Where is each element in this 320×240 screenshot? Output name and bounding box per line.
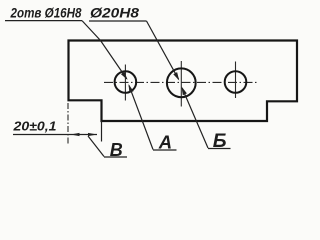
vertical center line hole B — [180, 61, 182, 107]
hole 1 (O16H8, labelled A) — [115, 71, 137, 93]
svg-text:А: А — [158, 132, 172, 153]
horizontal center line through holes — [104, 81, 258, 83]
dimension line — [13, 134, 97, 136]
callout underline 1 — [5, 20, 82, 22]
svg-text:В: В — [110, 140, 123, 160]
callout underline 2 — [89, 20, 147, 22]
leader from O16 callout to hole 1 — [82, 21, 127, 79]
hole 3 (O16H8) — [225, 71, 247, 93]
svg-text:2отв Ø16Н8: 2отв Ø16Н8 — [10, 5, 82, 20]
dimension arrow right — [88, 133, 97, 136]
label A leader arrow into hole 1 — [129, 85, 153, 149]
svg-text:20±0,1: 20±0,1 — [12, 118, 56, 133]
vertical center line hole A — [124, 65, 126, 101]
paper background — [0, 0, 302, 164]
extension line from step edge — [101, 121, 103, 142]
leader from O20 callout to hole 2 — [147, 21, 179, 79]
label V leader — [88, 136, 104, 157]
label A shelf — [153, 149, 177, 151]
label V shelf — [104, 156, 127, 158]
svg-text:Ø20Н8: Ø20Н8 — [90, 5, 140, 20]
dimension arrow left — [71, 133, 80, 136]
hole 2 (O20H8, labelled B) — [167, 68, 196, 97]
svg-text:Б: Б — [213, 130, 227, 152]
label B leader arrow into hole 2 — [182, 88, 208, 148]
label B shelf — [208, 148, 231, 150]
vertical center line hole C — [235, 62, 237, 99]
extension line (dash-dot) from left edge — [67, 103, 69, 144]
part outline (stepped plate) — [69, 41, 298, 122]
